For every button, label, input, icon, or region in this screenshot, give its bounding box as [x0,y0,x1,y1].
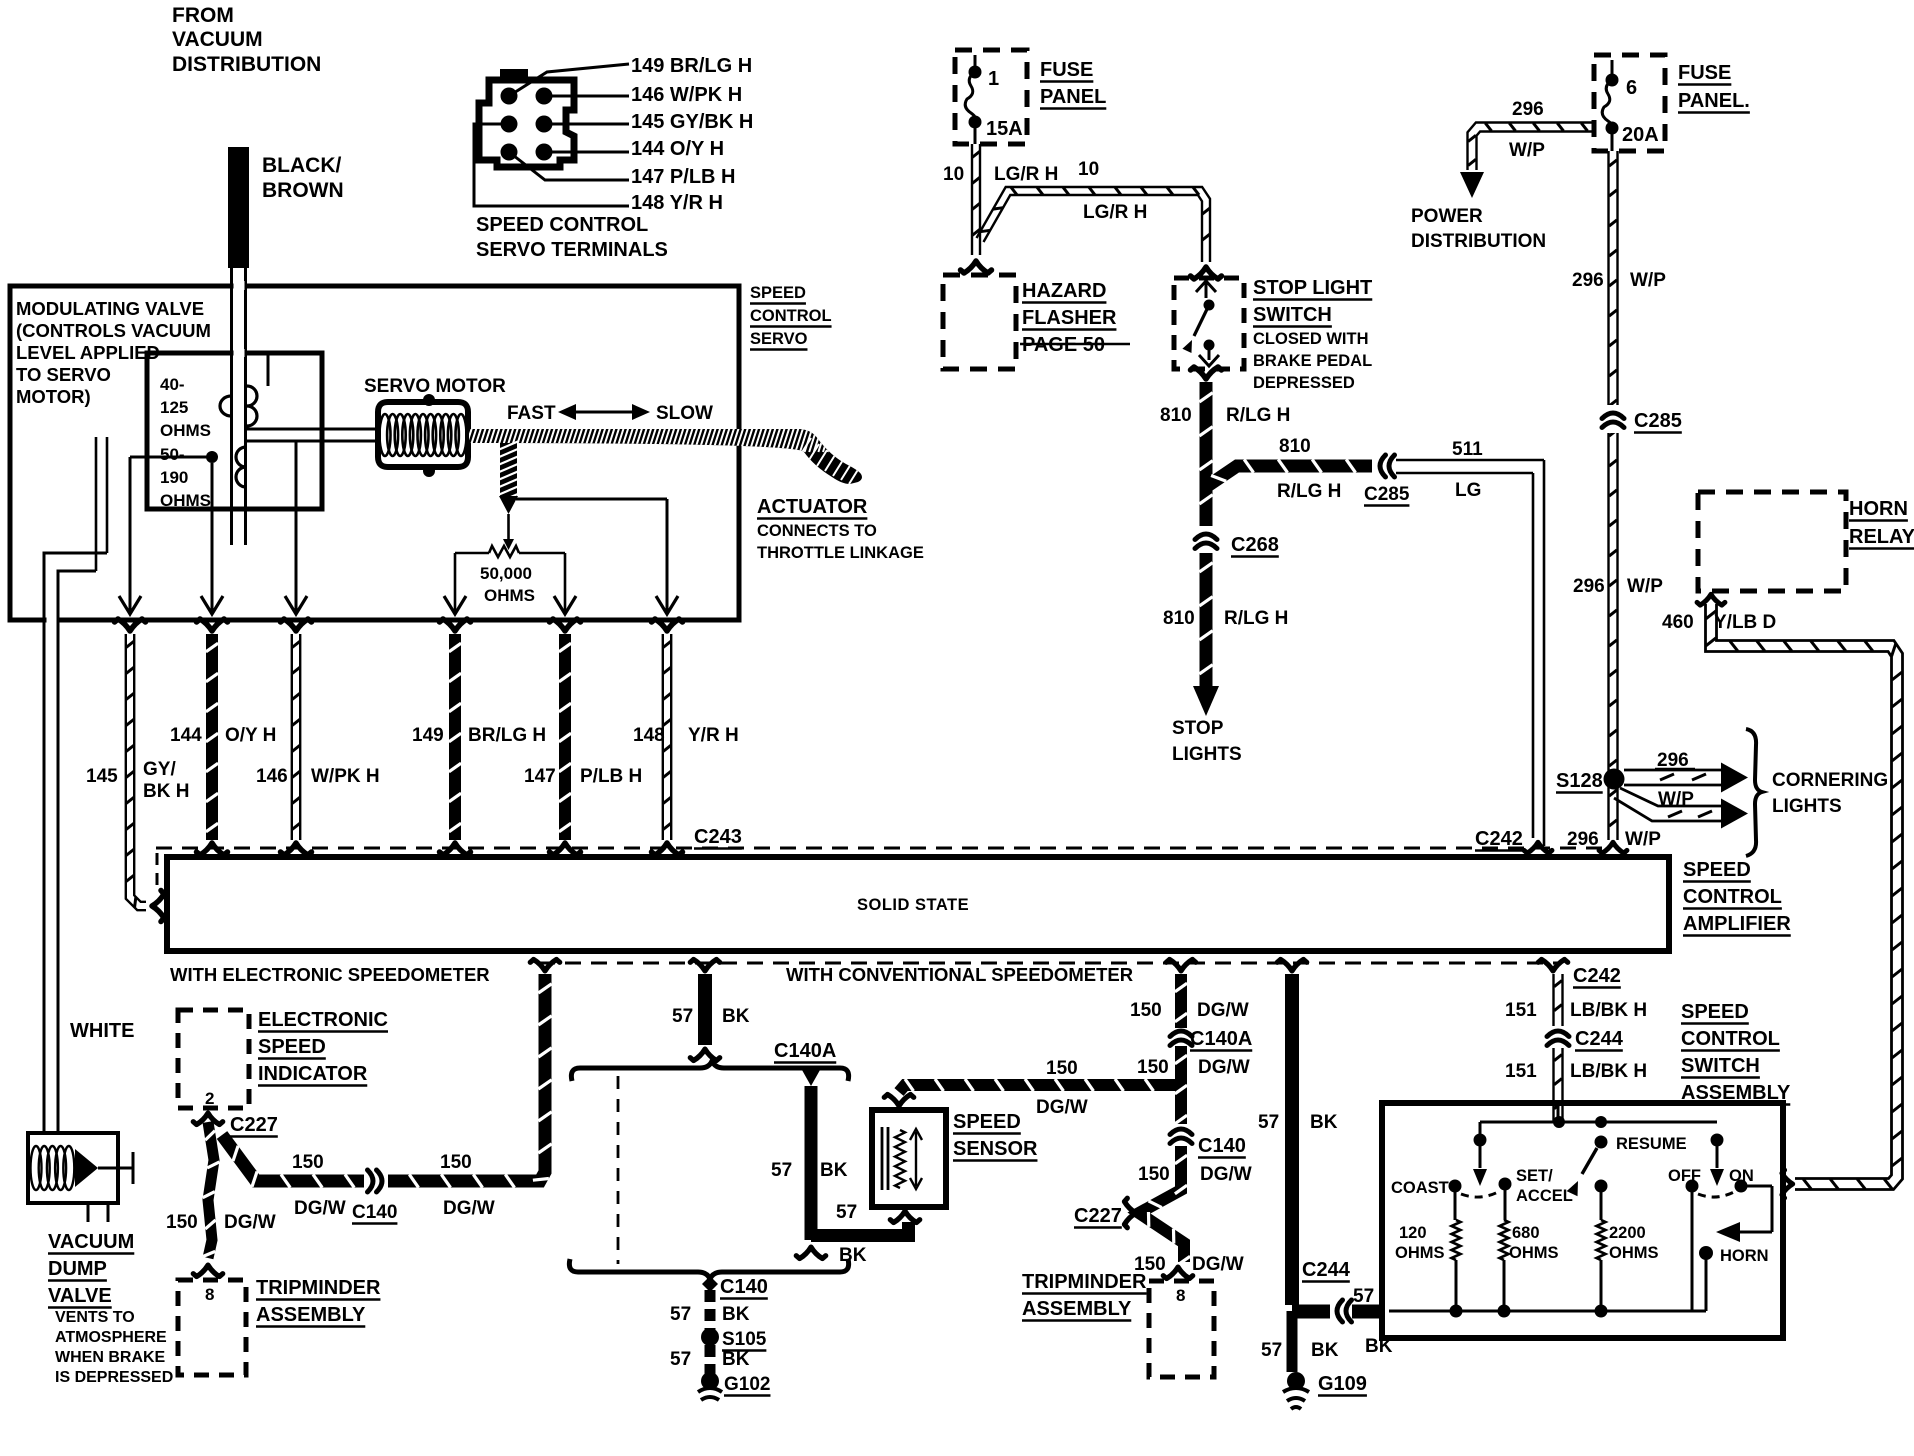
svg-text:W/PK H: W/PK H [311,766,380,787]
svg-text:LG: LG [1455,480,1481,501]
svg-text:C140: C140 [1198,1135,1246,1157]
svg-text:2200: 2200 [1609,1224,1646,1242]
svg-text:151: 151 [1505,1000,1537,1021]
svg-text:BLACK/: BLACK/ [262,154,341,177]
svg-text:680: 680 [1512,1224,1540,1242]
svg-text:C244: C244 [1302,1259,1351,1281]
connector C140 (conventional) [1170,1129,1246,1158]
svg-text:CLOSED WITH: CLOSED WITH [1253,330,1369,348]
svg-text:BK: BK [1310,1112,1338,1133]
label: STOP LIGHTS [1172,718,1242,765]
svg-text:C140: C140 [720,1276,768,1298]
tripminder assembly box (electronic) [178,1280,246,1375]
svg-text:810: 810 [1160,405,1192,426]
wire 150 DG/W (conventional speedometer run) [1130,959,1252,1278]
svg-text:VACUUM: VACUUM [172,28,263,51]
svg-text:DG/W: DG/W [1200,1164,1252,1185]
label: ELECTRONIC SPEED INDICATOR [258,1009,388,1086]
svg-text:150: 150 [1138,1164,1170,1185]
svg-text:DISTRIBUTION: DISTRIBUTION [172,53,321,76]
svg-text:57: 57 [1261,1340,1282,1361]
svg-text:VENTS TO: VENTS TO [55,1309,135,1326]
connector C285 (810/511) [1364,455,1410,506]
connector C227 (conventional) [1074,1198,1136,1227]
wire 150 DG/W (C227 to tripminder) [166,1122,276,1277]
svg-text:WHITE: WHITE [70,1020,134,1042]
svg-text:FAST: FAST [507,403,556,424]
svg-text:FUSE: FUSE [1678,62,1731,84]
label: SPEED CONTROL SWITCH ASSEMBLY [1681,1001,1791,1105]
wire 810 R/LG H (stop light switch to stop lights) [1160,367,1290,716]
svg-text:57: 57 [1353,1286,1374,1307]
svg-text:INDICATOR: INDICATOR [258,1063,368,1085]
label: 50-190 OHMS [160,445,211,510]
label: TRIPMINDER ASSEMBLY (electronic) [256,1277,381,1327]
svg-text:150: 150 [292,1152,324,1173]
wire 296 W/P to power distribution [1460,99,1594,198]
svg-text:FUSE: FUSE [1040,59,1093,81]
label: POWER DISTRIBUTION [1411,206,1546,252]
svg-text:147 P/LB H: 147 P/LB H [631,166,735,188]
svg-text:460: 460 [1662,612,1694,633]
svg-text:G102: G102 [724,1374,770,1395]
svg-text:HORN: HORN [1849,498,1908,520]
svg-text:810: 810 [1163,608,1195,629]
connector C244 (151 wire) [1547,1028,1624,1051]
svg-text:SENSOR: SENSOR [953,1138,1038,1160]
svg-text:DG/W: DG/W [443,1198,495,1219]
svg-text:57: 57 [670,1349,691,1370]
svg-text:MODULATING VALVE: MODULATING VALVE [16,298,204,319]
svg-text:50,000: 50,000 [480,564,532,583]
svg-text:ACCEL: ACCEL [1516,1187,1573,1205]
svg-text:150: 150 [1137,1057,1169,1078]
svg-text:SERVO TERMINALS: SERVO TERMINALS [476,239,668,261]
svg-text:SPEED: SPEED [258,1036,326,1058]
svg-text:BK: BK [839,1245,867,1266]
svg-text:OHMS: OHMS [1395,1244,1445,1262]
switch assembly bottom rail [1389,1192,1706,1318]
svg-text:O/Y H: O/Y H [225,725,276,746]
svg-text:149: 149 [412,725,444,746]
svg-text:DG/W: DG/W [1197,1000,1249,1021]
svg-text:LG/R H: LG/R H [1083,202,1147,223]
vacuum hose BLACK/BROWN [228,147,344,545]
svg-text:WHEN BRAKE: WHEN BRAKE [55,1349,166,1366]
fuse panel (fuse 6, 20A) [1594,55,1750,151]
svg-text:146 W/PK H: 146 W/PK H [631,84,742,106]
svg-text:SOLID STATE: SOLID STATE [857,896,969,914]
svg-text:57: 57 [1258,1112,1279,1133]
svg-text:PANEL: PANEL [1040,86,1106,108]
svg-text:ELECTRONIC: ELECTRONIC [258,1009,388,1031]
svg-text:TRIPMINDER: TRIPMINDER [1022,1271,1147,1293]
svg-text:BK H: BK H [143,781,189,802]
svg-text:57: 57 [672,1006,693,1027]
svg-text:125: 125 [160,398,188,417]
label: HAZARD FLASHER PAGE 50 [1020,280,1130,356]
svg-text:BK: BK [1311,1340,1339,1361]
servo motor [364,376,506,477]
svg-text:C242: C242 [1573,965,1621,987]
svg-text:57: 57 [670,1304,691,1325]
svg-text:144: 144 [170,725,202,746]
svg-text:15A: 15A [986,118,1023,140]
contact HORN [1699,1246,1769,1311]
brace connector C140 (lower) [569,1259,848,1299]
speed sensor box [872,1110,946,1207]
svg-text:DG/W: DG/W [224,1212,276,1233]
svg-text:150: 150 [166,1212,198,1233]
svg-text:40-: 40- [160,375,185,394]
svg-text:120: 120 [1399,1224,1427,1242]
text: VENTS TO ATMOSPHERE WHEN BRAKE IS DEPRESSED [55,1309,173,1386]
contact SET/ACCEL [1461,1167,1573,1205]
svg-text:144 O/Y H: 144 O/Y H [631,138,724,160]
svg-text:10: 10 [943,164,964,185]
svg-text:SPEED: SPEED [953,1111,1021,1133]
wire sensor bottom connector [890,1211,919,1222]
arrows at servo box bottom edge [119,596,678,614]
label: HORN RELAY [1849,498,1914,549]
valve center tube [234,281,245,357]
svg-text:148 Y/R H: 148 Y/R H [631,192,723,214]
svg-text:CONNECTS TO: CONNECTS TO [757,522,877,540]
svg-text:1: 1 [988,68,999,90]
svg-text:R/LG H: R/LG H [1226,405,1290,426]
svg-text:PANEL.: PANEL. [1678,90,1750,112]
svg-text:150: 150 [1046,1058,1078,1079]
svg-text:296: 296 [1512,99,1544,120]
svg-text:C227: C227 [1074,1205,1122,1227]
wire 57 BK (C140 to S105 to G102) [670,1276,767,1390]
box: SPEED CONTROL SERVO [10,286,739,620]
text: MODULATING VALVE [16,298,211,407]
svg-text:BRAKE PEDAL: BRAKE PEDAL [1253,352,1372,370]
svg-text:W/P: W/P [1627,576,1663,597]
resistor 120 OHMS [1395,1192,1461,1311]
svg-text:LG/R H: LG/R H [994,164,1058,185]
svg-text:151: 151 [1505,1061,1537,1082]
connector C140A (conventional) [1170,1028,1252,1051]
wire 511 LG [1396,439,1552,853]
contact COAST [1391,1179,1462,1197]
svg-text:BR/LG H: BR/LG H [468,725,546,746]
wire 57 BK (conventional, to G109) [1258,959,1339,1372]
svg-text:HORN: HORN [1720,1247,1769,1265]
dashed line inside C140 connector [617,1076,620,1264]
svg-text:R/LG H: R/LG H [1277,481,1341,502]
svg-text:OHMS: OHMS [484,586,535,605]
svg-text:ATMOSPHERE: ATMOSPHERE [55,1329,167,1346]
svg-text:DISTRIBUTION: DISTRIBUTION [1411,231,1546,252]
svg-text:DG/W: DG/W [1036,1097,1088,1118]
connector C140 (electronic) [352,1170,397,1224]
wire 144 O/Y H [170,619,276,855]
ground G102 [698,1374,770,1400]
svg-text:W/P: W/P [1630,270,1666,291]
wire: valve to servo motor (double line) [246,429,380,441]
white vacuum tube to dump valve [44,437,134,1133]
resistor 2200 OHMS [1597,1192,1659,1311]
svg-text:SPEED: SPEED [1683,859,1751,881]
wire 57 BK (amplifier to C140A, electronic) [672,959,750,1060]
svg-text:C242: C242 [1475,828,1523,850]
svg-text:FROM: FROM [172,4,234,27]
valve lower coil (50-190 ohms) [206,447,246,487]
label: VACUUM DUMP VALVE [48,1231,134,1308]
svg-text:TO SERVO: TO SERVO [16,364,111,385]
svg-text:190: 190 [160,468,188,487]
svg-text:LB/BK H: LB/BK H [1570,1061,1647,1082]
ground G109 [1283,1372,1367,1409]
fuse panel (fuse 1, 15A) [955,50,1106,144]
wire 296 W/P arrow to cornering lights (lower) [1614,788,1748,829]
svg-text:8: 8 [1176,1286,1185,1305]
svg-text:8: 8 [205,1285,214,1304]
svg-text:W/P: W/P [1509,140,1545,161]
dashed connector line C242 (below amplifier) [539,962,1560,965]
svg-text:MOTOR): MOTOR) [16,386,91,407]
svg-text:296: 296 [1572,270,1604,291]
connector C244 (57 BK to switch assembly) [1302,1259,1393,1357]
svg-text:THROTTLE LINKAGE: THROTTLE LINKAGE [757,544,924,562]
svg-text:CONTROL: CONTROL [1681,1028,1780,1050]
actuator vertical drop with arrow [498,441,519,550]
connector C268 [1195,526,1279,557]
svg-text:146: 146 [256,766,288,787]
svg-text:AMPLIFIER: AMPLIFIER [1683,913,1791,935]
svg-text:S105: S105 [722,1329,767,1350]
label: SPEED SENSOR [953,1111,1038,1161]
svg-text:LIGHTS: LIGHTS [1172,744,1242,765]
svg-text:DG/W: DG/W [1198,1057,1250,1078]
svg-text:CONTROL: CONTROL [1683,886,1782,908]
stop light switch box [1174,278,1244,369]
svg-text:STOP LIGHT: STOP LIGHT [1253,277,1372,299]
label: SPEED CONTROL AMPLIFIER [1683,859,1791,936]
svg-text:BROWN: BROWN [262,179,344,202]
svg-text:BK: BK [722,1304,750,1325]
wire 460 Y/LB D (horn relay to switch) [1662,594,1903,1198]
wire 147 P/LB H [524,619,642,855]
svg-text:VALVE: VALVE [48,1285,112,1307]
wire 149 BR/LG H [412,619,546,855]
wire 150 DG/W (amplifier to C140, electronic) [222,959,560,1219]
label C242 (151 wire) [1573,965,1621,988]
wire 146 W/PK H [256,619,380,855]
svg-text:G109: G109 [1318,1373,1367,1395]
resistor 680 OHMS [1500,1190,1559,1311]
wire: 148 exit from actuator [516,499,667,612]
label: TRIPMINDER ASSEMBLY (conventional) [1022,1271,1147,1321]
svg-text:SWITCH: SWITCH [1681,1055,1760,1077]
off/on switch arm [1668,1134,1754,1198]
svg-text:10: 10 [1078,159,1099,180]
electronic speed indicator box [178,1010,249,1108]
svg-text:SLOW: SLOW [656,403,713,424]
svg-text:GY/: GY/ [143,759,176,780]
svg-text:W/P: W/P [1625,829,1661,850]
svg-text:Y/R H: Y/R H [688,725,739,746]
svg-text:COAST: COAST [1391,1179,1449,1197]
switch assembly top rail [1480,1103,1717,1136]
speed control amplifier box (SOLID STATE) [167,857,1669,951]
label: ACTUATOR CONNECTS TO THROTTLE LINKAGE [757,496,924,562]
svg-text:147: 147 [524,766,556,787]
connector C227 (electronic speed indicator) [193,1113,278,1136]
svg-text:SPEED CONTROL: SPEED CONTROL [476,214,648,236]
svg-text:57: 57 [836,1202,857,1223]
wire: valve dot to left exit [130,457,212,612]
wire: 146 exit [295,441,298,612]
speed control switch assembly box [1382,1103,1783,1338]
svg-text:LIGHTS: LIGHTS [1772,796,1842,817]
svg-text:HAZARD: HAZARD [1022,280,1106,302]
svg-text:OHMS: OHMS [1509,1244,1559,1262]
svg-text:FLASHER: FLASHER [1022,307,1117,329]
svg-text:VACUUM: VACUUM [48,1231,134,1253]
svg-text:57: 57 [771,1160,792,1181]
svg-text:OHMS: OHMS [160,421,211,440]
label: SPEED CONTROL SERVO [750,284,832,350]
svg-text:DEPRESSED: DEPRESSED [1253,374,1355,392]
svg-text:810: 810 [1279,436,1311,457]
brace: cornering lights [1746,729,1762,856]
connector C285 (296 wire) [1602,405,1682,433]
wire 150 DG/W (speed sensor to conventional run) [884,1058,1175,1118]
svg-text:296: 296 [1573,576,1605,597]
svg-text:SERVO: SERVO [750,330,808,348]
svg-text:C140: C140 [352,1202,397,1223]
contact RESUME with arrow [1567,1135,1687,1196]
svg-text:LB/BK H: LB/BK H [1570,1000,1647,1021]
hazard flasher box [943,275,1016,369]
label: CORNERING LIGHTS [1772,770,1888,817]
svg-text:DUMP: DUMP [48,1258,107,1280]
wire 296 W/P arrow to cornering lights (upper) [1624,750,1748,810]
svg-text:P/LB H: P/LB H [580,766,642,787]
connector C243 dashed line [156,826,1604,893]
svg-text:ASSEMBLY: ASSEMBLY [256,1304,366,1326]
svg-text:RESUME: RESUME [1616,1135,1687,1153]
svg-text:OHMS: OHMS [160,491,211,510]
wire ON to external [1716,1186,1772,1242]
svg-text:C243: C243 [694,826,742,848]
svg-text:LEVEL APPLIED: LEVEL APPLIED [16,342,160,363]
svg-text:145 GY/BK H: 145 GY/BK H [631,111,753,133]
svg-text:C140A: C140A [1190,1028,1252,1050]
svg-text:SPEED: SPEED [1681,1001,1749,1023]
svg-text:DG/W: DG/W [294,1198,346,1219]
svg-text:150: 150 [1130,1000,1162,1021]
svg-text:(CONTROLS VACUUM: (CONTROLS VACUUM [16,320,211,341]
svg-text:CONTROL: CONTROL [750,307,832,325]
wire 57 BK (C140A to speed sensor) [771,1070,915,1266]
svg-text:WITH ELECTRONIC SPEEDOMETER: WITH ELECTRONIC SPEEDOMETER [170,964,490,985]
label: STOP LIGHT SWITCH CLOSED WITH BRAKE PEDAL DEPRESSED [1253,277,1372,392]
svg-text:148: 148 [633,725,665,746]
svg-text:WITH CONVENTIONAL SPEEDOMETE: WITH CONVENTIONAL SPEEDOMETER [786,964,1133,985]
svg-text:DG/W: DG/W [1192,1254,1244,1275]
wire 145 GY/BK H [86,619,189,922]
svg-text:CORNERING: CORNERING [1772,770,1888,791]
svg-text:C285: C285 [1364,484,1410,505]
wire 148 Y/R H [633,619,739,855]
svg-text:OHMS: OHMS [1609,1244,1659,1262]
valve upper coil (40-125 ohms) [220,355,268,426]
wire 296 W/P vertical (fuse to S128) [1567,151,1666,853]
svg-text:C268: C268 [1231,534,1279,556]
resistor 50,000 OHMS [455,546,565,612]
svg-text:SET/: SET/ [1516,1167,1553,1185]
svg-text:ASSEMBLY: ASSEMBLY [1022,1298,1132,1320]
svg-text:SWITCH: SWITCH [1253,304,1332,326]
svg-text:C227: C227 [230,1114,278,1136]
horn relay box [1698,492,1846,591]
svg-text:C244: C244 [1575,1028,1624,1050]
svg-text:BK: BK [722,1006,750,1027]
svg-text:STOP: STOP [1172,718,1224,739]
svg-text:C285: C285 [1634,410,1682,432]
connector: speed control servo terminals [474,55,753,261]
svg-text:Y/LB D: Y/LB D [1714,612,1776,633]
svg-text:511: 511 [1452,439,1483,460]
vacuum dump valve [28,1133,133,1222]
svg-text:BK: BK [722,1349,750,1370]
svg-text:RELAY: RELAY [1849,526,1914,548]
svg-text:S128: S128 [1556,770,1603,792]
svg-text:6: 6 [1626,77,1637,99]
svg-text:ACTUATOR: ACTUATOR [757,496,868,518]
FAST / SLOW arrow [507,403,713,424]
svg-text:SERVO MOTOR: SERVO MOTOR [364,376,506,397]
svg-text:IS DEPRESSED: IS DEPRESSED [55,1369,173,1386]
svg-text:20A: 20A [1622,124,1659,146]
svg-text:2: 2 [205,1089,214,1108]
svg-text:145: 145 [86,766,118,787]
svg-text:BK: BK [820,1160,848,1181]
label: WITH CONVENTIONAL SPEEDOMETER [786,964,1133,985]
svg-text:150: 150 [440,1152,472,1173]
svg-text:296: 296 [1567,829,1599,850]
brace connector C140A [571,1040,848,1081]
label: 40-125 OHMS [160,375,211,440]
splice S128 [1556,769,1625,793]
svg-text:C140A: C140A [774,1040,836,1062]
wire 10 LG/R H (fuse to hazard flasher) [943,144,1058,273]
svg-text:149 BR/LG H: 149 BR/LG H [631,55,752,77]
contact 2200 top [1595,1180,1608,1193]
coast/set switch arm [1473,1134,1487,1187]
wire 10 LG/R H (branch to stop light switch) [977,159,1222,279]
wire 151 LB/BK H (C242 to switch assembly) [1505,959,1647,1122]
svg-text:SPEED: SPEED [750,284,806,302]
svg-text:R/LG H: R/LG H [1224,608,1288,629]
connector C242 (511 to amplifier) [1475,828,1523,851]
modulating valve inner box [147,353,322,509]
text: FROM VACUUM DISTRIBUTION [172,4,321,76]
label: WITH ELECTRONIC SPEEDOMETER [170,964,490,985]
svg-text:TRIPMINDER: TRIPMINDER [256,1277,381,1299]
actuator hatched rod [418,424,896,484]
wire 810 R/LG H branch to C285 [1206,436,1372,502]
svg-text:POWER: POWER [1411,206,1483,227]
tripminder assembly box (conventional) [1149,1281,1214,1377]
svg-text:50-: 50- [160,445,185,464]
